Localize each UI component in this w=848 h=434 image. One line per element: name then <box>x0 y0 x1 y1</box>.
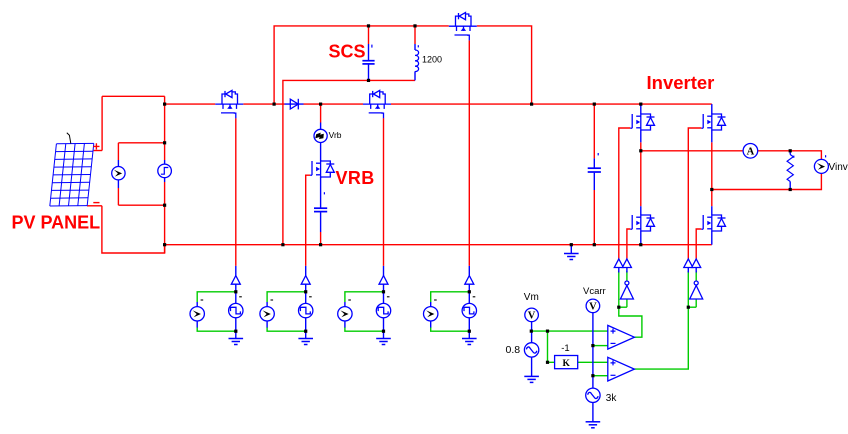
svg-text:Vm: Vm <box>524 292 539 303</box>
junction dots control <box>617 306 620 309</box>
on-off controller right B <box>695 268 697 273</box>
wire right NOT from buffer <box>695 271 697 281</box>
wire Vm to gain K input <box>548 331 555 362</box>
mosfet Q4 inverter bottom-left <box>640 206 642 214</box>
ground drive 2 <box>298 339 313 345</box>
PV panel <box>50 133 94 206</box>
junction dots dc bus <box>163 103 166 106</box>
voltage probe Vcarr <box>586 299 600 313</box>
wire SCS capacitor branch upper <box>368 26 370 44</box>
PV plus mark <box>93 143 99 149</box>
wire inner source box left <box>117 143 119 160</box>
wire VRB gate feed to drive 2 <box>306 175 310 266</box>
svg-text:SCS: SCS <box>329 42 366 62</box>
voltage sensor drive 2 <box>266 302 268 307</box>
wire left NOT input <box>619 306 627 308</box>
inductor L1 1200 <box>414 44 416 50</box>
voltage sensor drive 4 <box>430 302 432 307</box>
wire Vm to comparator1 plus <box>531 330 608 332</box>
square wave source drive 3 <box>383 292 385 304</box>
wire Vcarr to comparator2 minus <box>593 375 608 377</box>
svg-text:Vrb: Vrb <box>329 130 342 140</box>
wire gain K to comparator2 plus <box>578 361 608 363</box>
wire SCS bottom rail <box>283 80 415 244</box>
on-off controller left B <box>626 268 628 273</box>
mosfet Q6 inverter bottom-right <box>711 206 713 214</box>
diode D1 <box>285 103 304 105</box>
wire SCS top rail <box>274 26 449 104</box>
on-off controller drive 4 <box>468 266 470 276</box>
wire Vcarr to comparator1 minus <box>593 345 608 347</box>
comparator 1 <box>608 325 635 349</box>
wire VRB branch from node <box>320 104 322 122</box>
wire right NOT input <box>688 306 696 308</box>
current source Isc <box>117 160 119 167</box>
wire drive2 net <box>267 292 306 302</box>
comparator 2 <box>608 357 635 381</box>
junction dots inverter output <box>639 149 642 152</box>
wire PV - stub <box>87 205 102 207</box>
svg-text:3k: 3k <box>606 393 618 404</box>
wire inverter right leg middle <box>711 142 713 206</box>
mosfet Q-VRB <box>310 160 334 178</box>
wire VRB capacitor to ground rail <box>320 232 322 245</box>
wire PV panel left positive <box>101 96 103 150</box>
on-off controller right A <box>687 268 689 273</box>
ground drive 1 <box>229 339 244 345</box>
wire gate feed Q2 to drive 3 <box>383 118 385 266</box>
on-off controller drive 1 <box>235 266 237 276</box>
square wave source drive 4 <box>468 292 470 304</box>
svg-text:A: A <box>747 146 755 157</box>
square wave source drive 1 <box>235 292 237 304</box>
NOT gate left <box>620 281 633 299</box>
voltage sensor drive 3 <box>344 302 346 307</box>
svg-text:Inverter: Inverter <box>647 72 715 93</box>
wire PV panel left negative <box>102 206 165 253</box>
wire PV panel loop top <box>102 95 165 97</box>
step source <box>164 160 166 182</box>
mosfet Q5 inverter top-right <box>711 104 713 113</box>
sine source Vm 0.8 <box>524 343 538 357</box>
wire bottom ground rail <box>165 244 712 246</box>
ground drive 4 <box>462 339 477 345</box>
svg-text:1200: 1200 <box>422 55 442 65</box>
wire drive1 net <box>197 292 236 302</box>
wire dc-link capacitor upper <box>593 104 595 158</box>
svg-text:0.8: 0.8 <box>506 344 521 356</box>
wire main dc bus horizontal <box>165 103 216 105</box>
svg-text:K: K <box>563 359 571 369</box>
on-off controller drive 2 <box>305 266 307 276</box>
on-off controller drive 3 <box>383 266 385 276</box>
wire gate Q4 bottom-left <box>627 229 630 259</box>
wire SCS inductor branch upper <box>414 26 416 44</box>
wire Vinv to output bottom <box>712 173 822 189</box>
junction dots gate drives <box>234 290 237 293</box>
voltage sensor Vinv <box>820 160 822 174</box>
wire inner source box bottom <box>118 204 164 206</box>
svg-text:Vinv: Vinv <box>829 162 848 173</box>
wire drive3 net <box>345 292 384 302</box>
wire main left bus vertical <box>164 96 166 160</box>
on-off controller left A <box>618 268 620 273</box>
wire left pair node to buffers <box>618 271 620 307</box>
wire left NOT from buffer <box>626 271 628 281</box>
wire gate feed Q1 to drive 1 <box>235 118 237 266</box>
wire gate Q5 top-right <box>688 128 701 259</box>
load resistor <box>789 151 791 155</box>
wire PV + stub <box>94 150 103 152</box>
wire inverter left leg middle <box>640 142 642 206</box>
svg-text:PV PANEL: PV PANEL <box>12 213 101 233</box>
ground Vm source <box>524 376 539 382</box>
PV minus mark <box>93 202 99 204</box>
wire comparator1 output to left gate pair <box>619 307 642 337</box>
SCS capacitor C1 <box>368 44 370 60</box>
svg-text:VRB: VRB <box>336 168 375 188</box>
voltage sensor drive 1 <box>196 302 198 307</box>
svg-text:V: V <box>589 302 597 313</box>
mosfet Q3 inverter top-left <box>640 104 642 113</box>
wire dc-link capacitor lower <box>593 190 595 245</box>
mosfet Q-SCS top <box>449 13 477 41</box>
svg-text:-1: -1 <box>561 343 569 354</box>
gain block K -1 <box>555 356 578 369</box>
ammeter A1 <box>743 150 758 152</box>
wire inverter output top <box>641 150 743 152</box>
ground carrier source <box>586 422 601 428</box>
wire right pair node to buffer <box>687 271 689 307</box>
voltage probe Vm <box>525 308 539 322</box>
NOT gate right <box>690 281 703 299</box>
svg-text:V: V <box>528 311 536 322</box>
mosfet Q2 boost <box>363 90 391 118</box>
wire inner source box top <box>118 142 164 144</box>
current flag Vrb <box>320 123 322 130</box>
ground drive 3 <box>376 339 391 345</box>
wire gate feed Q-SCS to drive 4 <box>468 40 470 266</box>
square wave source drive 2 <box>305 292 307 304</box>
wire gate Q3 top-left <box>619 128 631 259</box>
dc-link capacitor C3 <box>593 158 595 167</box>
mosfet Q1 buck <box>215 90 243 118</box>
svg-text:Vcarr: Vcarr <box>583 286 606 297</box>
sine source carrier 3k <box>586 388 600 402</box>
wire ammeter to Vinv <box>758 151 822 160</box>
wire gate Q6 bottom-right <box>696 229 701 259</box>
ground main rail <box>570 245 572 254</box>
wire drive4 net <box>431 292 470 302</box>
junction dots ground rail <box>163 243 166 246</box>
VRB capacitor C2 <box>320 177 322 208</box>
wire comparator2 output to right gate pair <box>634 307 688 369</box>
